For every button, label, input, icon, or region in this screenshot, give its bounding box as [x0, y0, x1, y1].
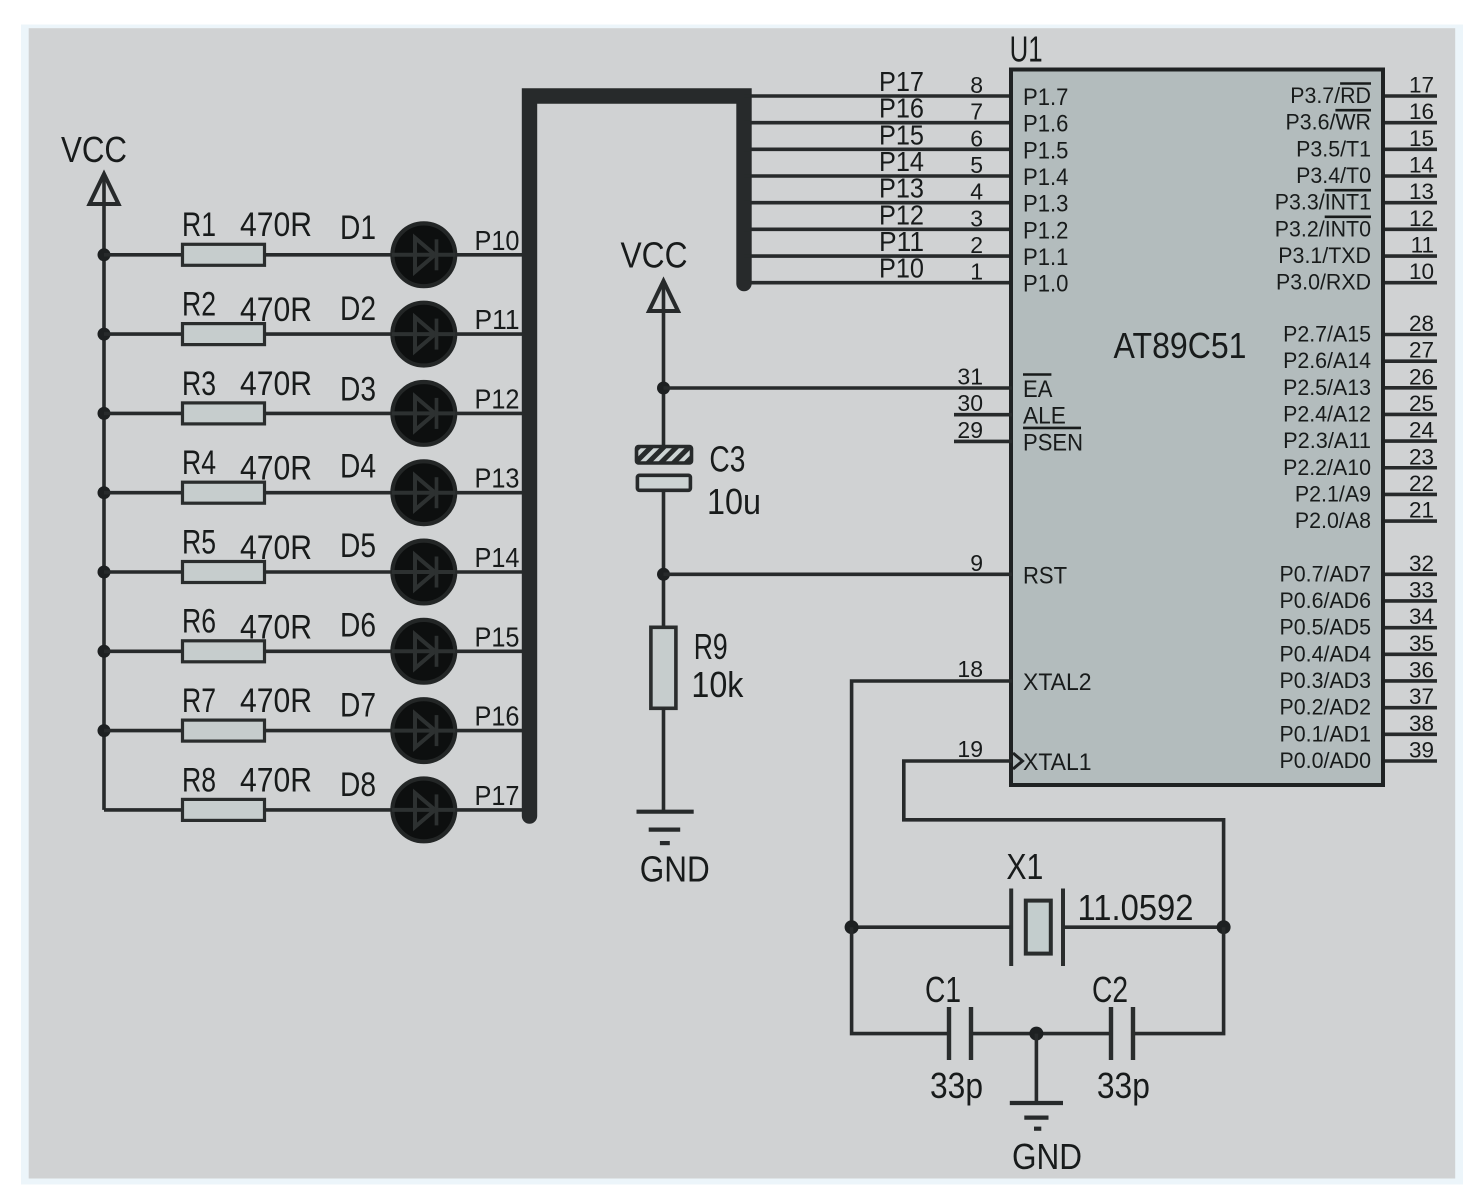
svg-text:P0.1/AD1: P0.1/AD1 — [1280, 721, 1372, 746]
resistor R5 — [183, 562, 265, 583]
LED D2 — [392, 303, 456, 366]
svg-text:470R: 470R — [240, 608, 312, 646]
svg-text:R8: R8 — [182, 761, 216, 799]
svg-text:P2.2/A10: P2.2/A10 — [1283, 455, 1371, 480]
pin 26 stub — [1385, 386, 1437, 390]
resistor R3 — [183, 403, 265, 424]
svg-text:13: 13 — [1409, 179, 1434, 204]
svg-text:EA: EA — [1023, 376, 1053, 403]
svg-text:XTAL2: XTAL2 — [1023, 669, 1092, 696]
svg-text:R4: R4 — [182, 444, 216, 482]
bus wire (thick) from LED column to port P1 — [530, 96, 745, 816]
svg-text:R9: R9 — [694, 626, 728, 667]
pin 12 stub — [1385, 228, 1437, 232]
wire C1 to center node — [973, 1032, 1036, 1036]
svg-text:6: 6 — [970, 125, 983, 151]
pin 11 stub — [1385, 254, 1437, 258]
svg-text:C2: C2 — [1092, 969, 1128, 1010]
svg-text:P2.6/A14: P2.6/A14 — [1283, 348, 1371, 373]
svg-text:26: 26 — [1409, 364, 1434, 389]
svg-text:19: 19 — [957, 736, 983, 762]
svg-text:R2: R2 — [182, 286, 216, 324]
wire RST node to pin 9 — [664, 572, 1013, 576]
wire R3 to D3 — [265, 412, 394, 416]
svg-text:14: 14 — [1409, 153, 1434, 178]
pin 38 stub — [1385, 733, 1437, 737]
wire bus to pin 8 (P17) — [744, 94, 1012, 98]
svg-text:35: 35 — [1409, 631, 1434, 656]
resistor R8 — [183, 799, 265, 820]
svg-text:P2.0/A8: P2.0/A8 — [1295, 508, 1371, 533]
junction node crystal left — [845, 920, 859, 934]
svg-text:P0.7/AD7: P0.7/AD7 — [1280, 561, 1372, 586]
pin 27 stub — [1385, 359, 1437, 363]
svg-text:P3.2/INT0: P3.2/INT0 — [1275, 216, 1371, 241]
wire VCC rail to R2 — [104, 332, 183, 336]
wire C2 to center node — [1036, 1032, 1109, 1036]
wire C3 to RST node — [662, 490, 666, 627]
pin 36 stub — [1385, 679, 1437, 683]
svg-text:18: 18 — [957, 656, 983, 682]
svg-text:R7: R7 — [182, 682, 216, 720]
svg-text:31: 31 — [957, 364, 983, 390]
svg-text:P2.3/A11: P2.3/A11 — [1283, 428, 1371, 453]
wire crystal right — [1063, 925, 1224, 929]
svg-text:P0.2/AD2: P0.2/AD2 — [1280, 695, 1372, 720]
junction on VCC rail — [98, 328, 111, 341]
wire VCC rail to R7 — [104, 729, 183, 733]
wire D2 to bus, net P11 — [455, 332, 533, 336]
junction on VCC rail — [98, 645, 111, 658]
capacitor C2 — [1111, 1007, 1133, 1060]
svg-text:P1.0: P1.0 — [1023, 271, 1068, 298]
svg-text:D3: D3 — [340, 370, 376, 408]
pin 13 stub — [1385, 201, 1437, 205]
wire D4 to bus, net P13 — [455, 491, 533, 495]
svg-text:P15: P15 — [475, 621, 520, 652]
pin 17 stub — [1385, 94, 1437, 98]
svg-text:29: 29 — [957, 417, 983, 443]
wire VCC to C3 — [662, 281, 666, 447]
wire right leg down to C2 — [1135, 927, 1224, 1033]
svg-text:21: 21 — [1409, 498, 1434, 523]
resistor R2 — [183, 324, 265, 345]
capacitor C3 (polarized) — [637, 447, 692, 491]
svg-text:R6: R6 — [182, 603, 216, 641]
wire bus to pin 4 (P13) — [744, 201, 1012, 205]
ground (middle) — [637, 812, 694, 843]
wire VCC rail to R5 — [104, 570, 183, 574]
pin 30 stub — [954, 413, 1012, 417]
LED D7 — [392, 699, 456, 762]
wire R6 to D6 — [265, 649, 394, 653]
svg-text:C1: C1 — [925, 969, 961, 1010]
svg-text:ALE: ALE — [1023, 403, 1066, 430]
svg-text:22: 22 — [1409, 471, 1434, 496]
pin 23 stub — [1385, 466, 1437, 470]
pin 15 stub — [1385, 148, 1437, 152]
wire XTAL1 pin 19 — [904, 761, 1224, 927]
svg-text:27: 27 — [1409, 338, 1434, 363]
svg-text:33p: 33p — [930, 1065, 983, 1106]
svg-text:VCC: VCC — [621, 234, 688, 275]
pin 16 stub — [1385, 121, 1437, 125]
wire R8 to D8 — [265, 808, 394, 812]
svg-text:AT89C51: AT89C51 — [1114, 325, 1247, 366]
svg-text:10k: 10k — [691, 664, 744, 705]
svg-text:9: 9 — [970, 550, 983, 576]
svg-text:X1: X1 — [1006, 846, 1043, 887]
svg-text:28: 28 — [1409, 311, 1434, 336]
svg-text:470R: 470R — [240, 761, 312, 799]
svg-text:3: 3 — [970, 205, 983, 231]
wire VCC rail to R1 — [104, 253, 183, 257]
svg-text:38: 38 — [1409, 711, 1434, 736]
svg-text:36: 36 — [1409, 657, 1434, 682]
svg-text:12: 12 — [1409, 206, 1434, 231]
svg-text:D6: D6 — [340, 606, 376, 644]
wire R2 to D2 — [265, 332, 394, 336]
svg-text:24: 24 — [1409, 418, 1434, 443]
svg-text:P3.5/T1: P3.5/T1 — [1296, 136, 1371, 161]
svg-text:10u: 10u — [707, 481, 761, 522]
svg-text:1: 1 — [970, 259, 983, 285]
pin 33 stub — [1385, 599, 1437, 603]
junction node RST — [657, 568, 670, 581]
pin 10 stub — [1385, 281, 1437, 285]
resistor R1 — [183, 244, 265, 265]
svg-text:11.0592: 11.0592 — [1078, 887, 1194, 928]
wire D1 to bus, net P10 — [455, 253, 533, 257]
svg-text:P1.2: P1.2 — [1023, 217, 1068, 244]
pin 24 stub — [1385, 439, 1437, 443]
svg-text:17: 17 — [1409, 73, 1434, 98]
svg-text:470R: 470R — [240, 291, 312, 329]
svg-text:P3.6/WR: P3.6/WR — [1286, 110, 1372, 135]
svg-text:VCC: VCC — [61, 129, 127, 170]
svg-text:C3: C3 — [709, 438, 745, 479]
svg-text:30: 30 — [957, 390, 983, 416]
svg-text:D7: D7 — [340, 687, 376, 725]
svg-text:GND: GND — [640, 848, 710, 889]
svg-text:P1.5: P1.5 — [1023, 137, 1068, 164]
svg-text:R5: R5 — [182, 523, 216, 561]
svg-text:P1.7: P1.7 — [1023, 84, 1068, 111]
junction on VCC rail — [98, 248, 111, 261]
junction on VCC rail — [98, 566, 111, 579]
svg-text:470R: 470R — [240, 365, 312, 403]
wire D5 to bus, net P14 — [455, 570, 533, 574]
junction node crystal right — [1217, 920, 1231, 934]
pin XTAL1 clock marker — [1013, 753, 1023, 769]
svg-text:4: 4 — [970, 179, 983, 205]
svg-text:2: 2 — [970, 232, 983, 258]
wire R4 to D4 — [265, 491, 394, 495]
crystal X1 — [1011, 889, 1063, 967]
svg-text:470R: 470R — [240, 682, 312, 720]
svg-text:P0.4/AD4: P0.4/AD4 — [1280, 641, 1372, 666]
svg-text:P3.7/RD: P3.7/RD — [1290, 83, 1371, 108]
wire VCC rail to R4 — [104, 491, 183, 495]
svg-text:XTAL1: XTAL1 — [1023, 749, 1092, 776]
pin 34 stub — [1385, 626, 1437, 630]
pin 28 stub — [1385, 333, 1437, 337]
svg-text:25: 25 — [1409, 391, 1434, 416]
svg-text:P3.3/INT1: P3.3/INT1 — [1275, 190, 1371, 215]
svg-text:P10: P10 — [879, 253, 924, 284]
svg-text:11: 11 — [1411, 233, 1434, 258]
op-amp-style IC body: microcontroller U1 AT89C51 — [1011, 70, 1383, 786]
svg-text:R3: R3 — [182, 365, 216, 403]
svg-text:23: 23 — [1409, 444, 1434, 469]
svg-text:P3.0/RXD: P3.0/RXD — [1276, 270, 1371, 295]
svg-text:P1.1: P1.1 — [1023, 244, 1068, 271]
svg-text:P0.0/AD0: P0.0/AD0 — [1280, 748, 1372, 773]
svg-text:15: 15 — [1409, 126, 1434, 151]
pin 32 stub — [1385, 572, 1437, 576]
wire D3 to bus, net P12 — [455, 412, 533, 416]
svg-text:5: 5 — [970, 152, 983, 178]
pin 35 stub — [1385, 653, 1437, 657]
wire left leg down to C1 — [852, 927, 947, 1033]
wire XTAL2 pin 18 — [852, 681, 1012, 927]
LED D1 — [392, 223, 456, 286]
pin 37 stub — [1385, 706, 1437, 710]
wire VCC rail to R8 — [104, 808, 183, 812]
svg-text:P1.3: P1.3 — [1023, 191, 1068, 218]
svg-text:GND: GND — [1012, 1136, 1082, 1177]
pin 22 stub — [1385, 493, 1437, 497]
svg-text:37: 37 — [1409, 684, 1434, 709]
wire bus to pin 3 (P12) — [744, 228, 1012, 232]
wire VCC rail (left) — [102, 174, 106, 810]
ground (crystal) — [1010, 1103, 1063, 1129]
svg-text:P14: P14 — [475, 542, 520, 573]
svg-text:470R: 470R — [240, 206, 312, 244]
svg-text:P3.1/TXD: P3.1/TXD — [1278, 243, 1371, 268]
svg-text:D4: D4 — [340, 448, 376, 486]
pin 29 stub — [954, 440, 1012, 444]
svg-text:33p: 33p — [1097, 1065, 1150, 1106]
svg-text:PSEN: PSEN — [1023, 429, 1083, 456]
wire bus to pin 6 (P15) — [744, 148, 1012, 152]
pin 25 stub — [1385, 413, 1437, 417]
svg-text:P11: P11 — [475, 304, 520, 335]
svg-text:32: 32 — [1409, 551, 1434, 576]
svg-text:D1: D1 — [340, 209, 376, 247]
svg-text:P2.1/A9: P2.1/A9 — [1295, 481, 1371, 506]
LED D5 — [392, 541, 456, 604]
pin 39 stub — [1385, 759, 1437, 763]
wire R9 to ground — [662, 708, 666, 812]
svg-text:P0.6/AD6: P0.6/AD6 — [1280, 588, 1372, 613]
wire center node to ground — [1035, 1034, 1039, 1101]
svg-text:P2.4/A12: P2.4/A12 — [1283, 401, 1371, 426]
svg-text:P17: P17 — [475, 780, 520, 811]
wire bus to pin 2 (P11) — [744, 254, 1012, 258]
svg-text:470R: 470R — [240, 450, 312, 488]
resistor R9 — [651, 627, 676, 708]
svg-text:RST: RST — [1023, 562, 1067, 589]
svg-text:P16: P16 — [475, 701, 520, 732]
wire bus to pin 7 (P16) — [744, 121, 1012, 125]
capacitor C1 — [949, 1007, 971, 1060]
svg-text:16: 16 — [1409, 99, 1434, 124]
svg-text:P1.4: P1.4 — [1023, 164, 1068, 191]
junction node GND center — [1029, 1027, 1043, 1041]
svg-text:P12: P12 — [475, 383, 520, 414]
svg-text:P10: P10 — [475, 225, 520, 256]
wire D8 to bus, net P17 — [455, 808, 533, 812]
svg-text:D8: D8 — [340, 766, 376, 804]
junction node EA/VCC — [657, 382, 670, 395]
svg-text:P13: P13 — [475, 463, 520, 494]
LED D3 — [392, 382, 456, 445]
svg-text:8: 8 — [970, 72, 983, 98]
wire D6 to bus, net P15 — [455, 649, 533, 653]
svg-text:470R: 470R — [240, 529, 312, 567]
svg-text:U1: U1 — [1010, 29, 1043, 70]
svg-text:P2.5/A13: P2.5/A13 — [1283, 375, 1371, 400]
wire R7 to D7 — [265, 729, 394, 733]
wire crystal left — [852, 925, 1012, 929]
wire D7 to bus, net P16 — [455, 729, 533, 733]
wire R1 to D1 — [265, 253, 394, 257]
svg-text:7: 7 — [970, 99, 983, 125]
svg-text:D5: D5 — [340, 527, 376, 565]
pin 21 stub — [1385, 519, 1437, 523]
wire VCC rail to R3 — [104, 412, 183, 416]
junction on VCC rail — [98, 724, 111, 737]
LED D6 — [392, 620, 456, 683]
svg-text:34: 34 — [1409, 604, 1434, 629]
resistor R7 — [183, 720, 265, 741]
pin 14 stub — [1385, 174, 1437, 178]
svg-text:P2.7/A15: P2.7/A15 — [1283, 322, 1371, 347]
wire R5 to D5 — [265, 570, 394, 574]
wire VCC to EA pin 31 — [664, 386, 1013, 390]
junction on VCC rail — [98, 486, 111, 499]
svg-text:P0.5/AD5: P0.5/AD5 — [1280, 615, 1372, 640]
LED D4 — [392, 461, 456, 524]
wire bus to pin 5 (P14) — [744, 174, 1012, 178]
svg-text:P3.4/T0: P3.4/T0 — [1296, 163, 1371, 188]
LED D8 — [392, 779, 456, 842]
resistor R4 — [183, 482, 265, 503]
junction on VCC rail — [98, 407, 111, 420]
svg-text:39: 39 — [1409, 737, 1434, 762]
resistor R6 — [183, 641, 265, 662]
svg-text:33: 33 — [1409, 577, 1434, 602]
svg-text:10: 10 — [1409, 259, 1434, 284]
svg-text:P1.6: P1.6 — [1023, 111, 1068, 138]
svg-text:R1: R1 — [182, 206, 216, 244]
svg-text:P0.3/AD3: P0.3/AD3 — [1280, 668, 1372, 693]
svg-text:D2: D2 — [340, 290, 376, 328]
wire bus to pin 1 (P10) — [744, 281, 1012, 285]
wire VCC rail to R6 — [104, 649, 183, 653]
